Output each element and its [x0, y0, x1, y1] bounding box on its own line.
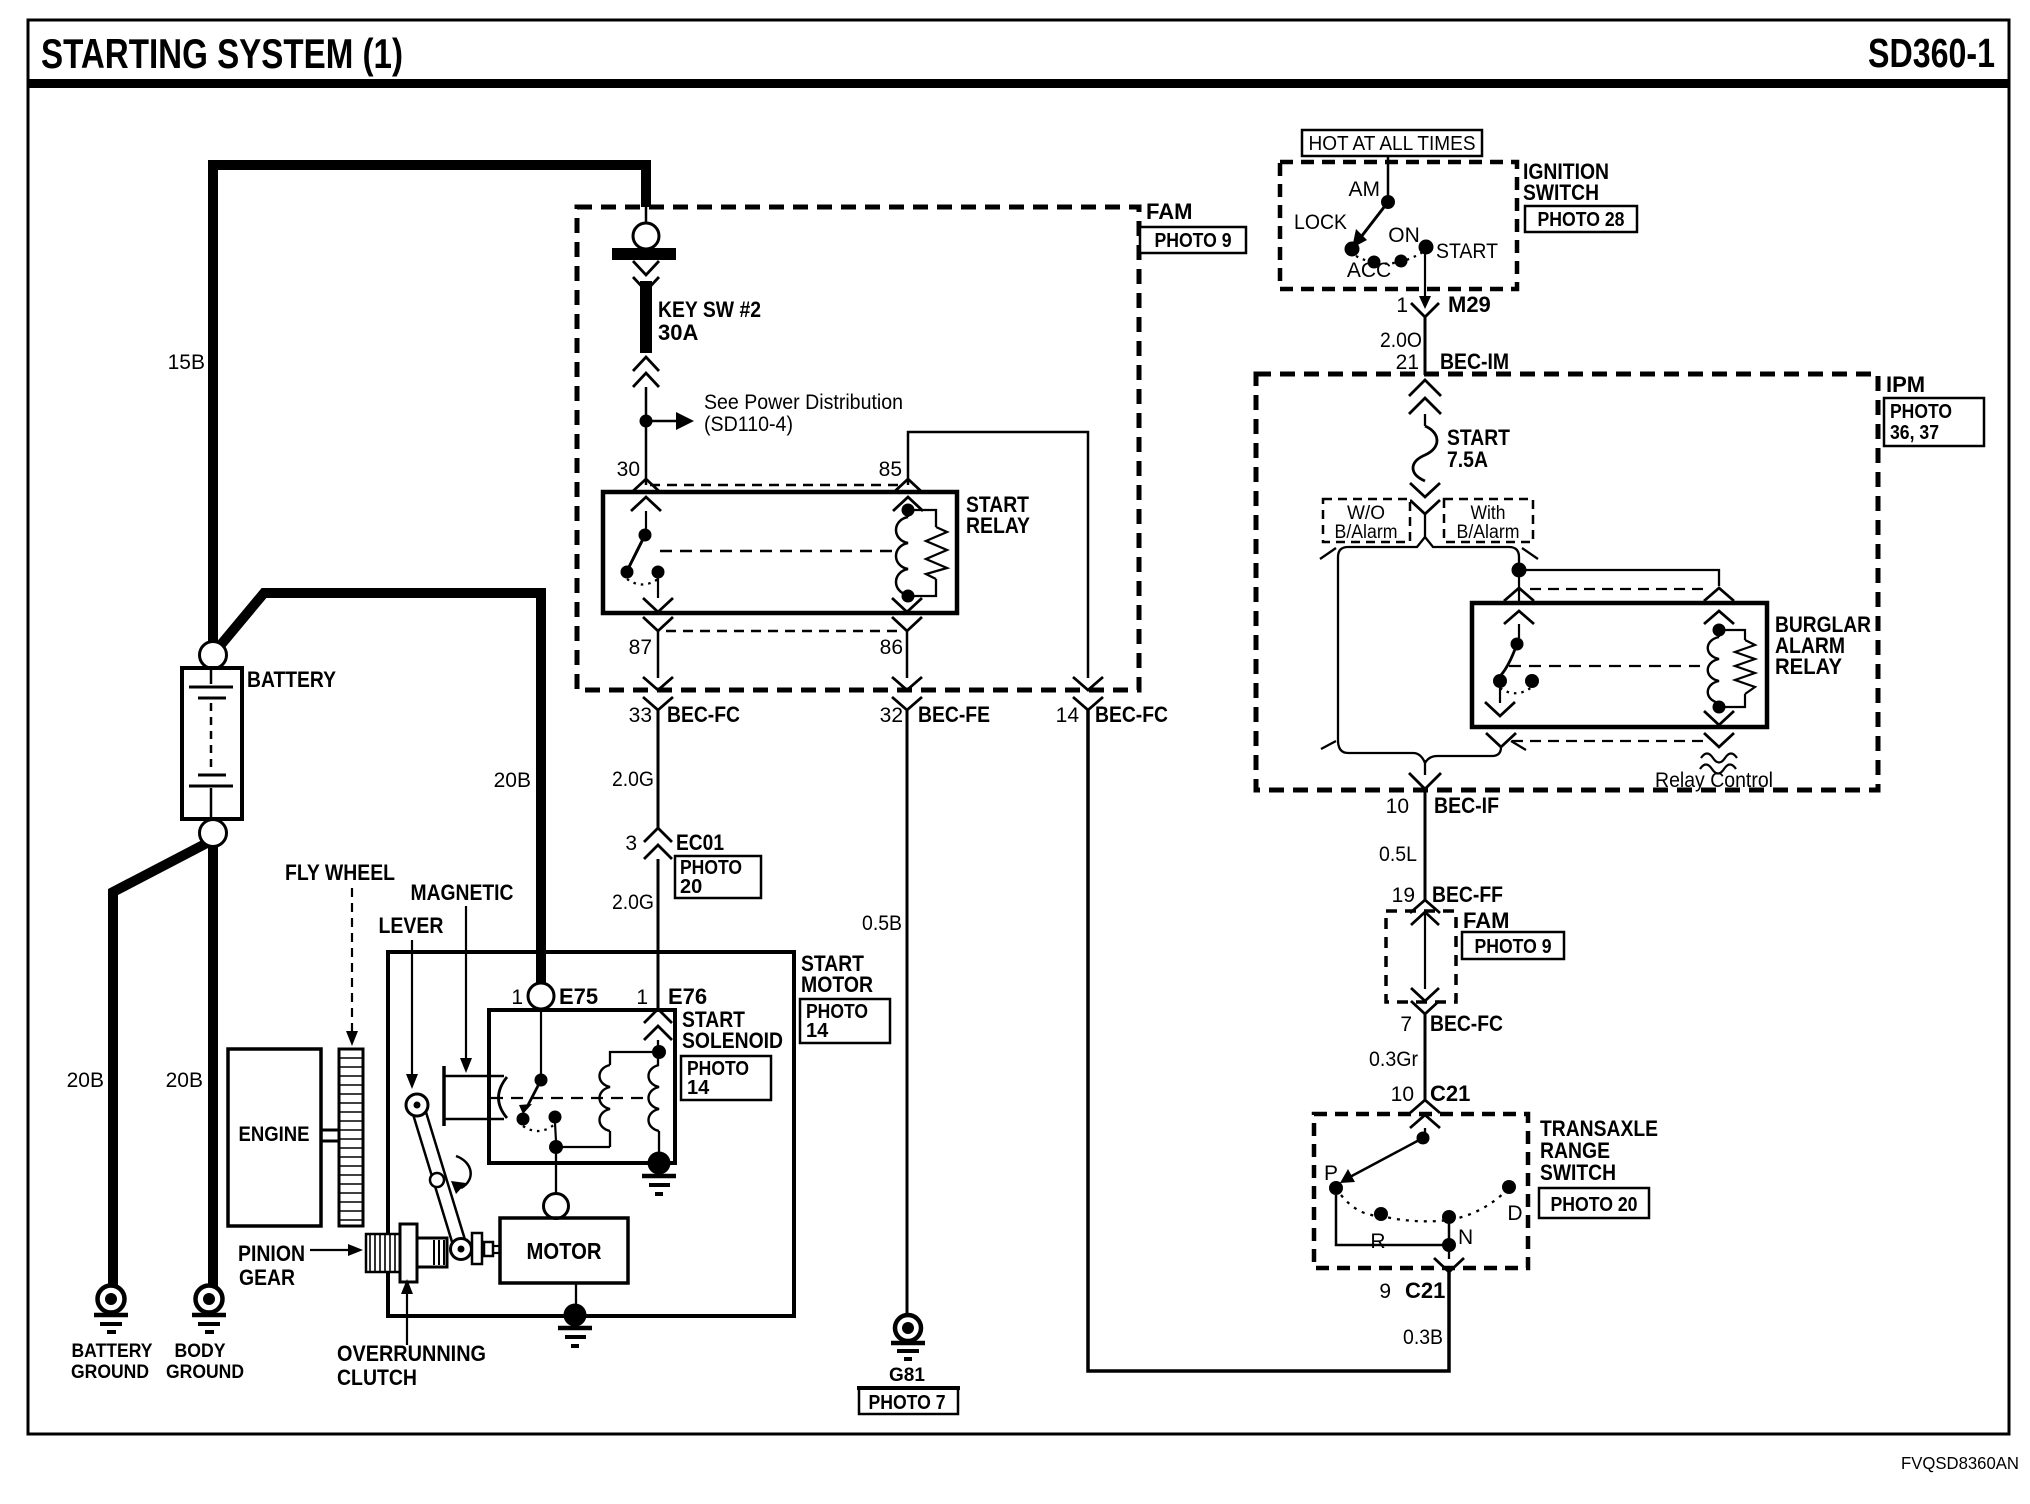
svg-text:G81: G81: [889, 1365, 925, 1386]
wire START to M29: [1424, 250, 1426, 298]
wire 0.5B BEC-FE to G81: [906, 710, 909, 1316]
photo box PHOTO 28: [1525, 206, 1637, 232]
svg-text:20: 20: [680, 876, 702, 898]
svg-text:HOT AT ALL TIMES: HOT AT ALL TIMES: [1309, 133, 1476, 155]
svg-text:B/Alarm: B/Alarm: [1457, 522, 1520, 543]
svg-text:STARTING SYSTEM (1): STARTING SYSTEM (1): [41, 30, 403, 77]
svg-text:PHOTO 9: PHOTO 9: [1155, 230, 1232, 252]
svg-text:BEC-FC: BEC-FC: [1095, 702, 1168, 727]
solenoid switch: [517, 1009, 564, 1154]
relay switch contacts: [621, 511, 665, 598]
engine-flywheel link: [321, 1130, 339, 1141]
lever linkage: [406, 1094, 472, 1260]
svg-text:0.3B: 0.3B: [1403, 1326, 1443, 1349]
connector M29: [1411, 296, 1439, 317]
svg-text:MOTOR: MOTOR: [801, 972, 873, 997]
svg-text:33: 33: [629, 704, 652, 727]
ignition switch contacts: [1294, 178, 1498, 282]
arrow see power distribution: [652, 391, 903, 436]
connector dashed line 87-86: [666, 630, 898, 633]
wire fuse to relay pin 30: [645, 387, 648, 485]
burglar relay coil with resistor: [1708, 624, 1755, 714]
merged wire to BEC-IF: [1424, 760, 1426, 775]
photo box PHOTO 9 (FAM lower): [1462, 932, 1564, 959]
svg-text:OVERRUNNING: OVERRUNNING: [337, 1341, 486, 1366]
motor ground: [558, 1283, 592, 1346]
transaxle switch contacts: [1324, 1128, 1523, 1259]
chevrons below fuse: [1410, 483, 1440, 514]
svg-text:KEY SW #2: KEY SW #2: [658, 297, 761, 322]
connector chevrons BEC-FC 14: [1073, 677, 1103, 710]
photo box PHOTO 14 (solenoid): [681, 1056, 771, 1100]
svg-text:2.0G: 2.0G: [612, 768, 654, 791]
wire junction down to relay pin: [1518, 570, 1520, 601]
svg-text:30A: 30A: [658, 320, 698, 345]
svg-text:PHOTO 28: PHOTO 28: [1538, 209, 1625, 231]
wire 20B battery ground: [113, 843, 207, 1287]
chevrons burglar relay right pin: [1704, 588, 1734, 624]
svg-text:ENGINE: ENGINE: [239, 1123, 310, 1146]
svg-text:BODY: BODY: [175, 1340, 226, 1362]
svg-text:E75: E75: [559, 984, 598, 1009]
wire 0.5L: [1424, 789, 1427, 901]
svg-text:BATTERY: BATTERY: [72, 1340, 153, 1362]
svg-text:7.5A: 7.5A: [1447, 447, 1488, 472]
junction node see-power-distribution: [640, 415, 653, 428]
svg-text:RELAY: RELAY: [966, 513, 1030, 538]
chevrons below bar: [633, 261, 659, 291]
svg-text:19: 19: [1392, 884, 1415, 907]
lever rotation arrow: [451, 1156, 471, 1194]
svg-text:AM: AM: [1349, 178, 1381, 201]
motor box MOTOR: [500, 1218, 628, 1283]
fuse START 7.5A: [1413, 426, 1437, 481]
option box With B/Alarm: [1444, 499, 1533, 543]
wire through FAM lower: [1424, 912, 1426, 989]
ignition switch box (dashed): [1280, 162, 1517, 289]
connector chevrons BEC-FF 19: [1410, 900, 1440, 925]
svg-text:CLUTCH: CLUTCH: [337, 1365, 417, 1390]
svg-text:R: R: [1370, 1230, 1385, 1253]
connector chevron C21 9: [1434, 1258, 1464, 1272]
svg-text:LEVER: LEVER: [379, 913, 444, 938]
wire fork stem: [1424, 514, 1426, 537]
svg-text:W/O: W/O: [1347, 503, 1385, 524]
svg-text:86: 86: [880, 636, 903, 659]
fly wheel gear: [339, 1049, 363, 1226]
switch box TRANSAXLE RANGE SWITCH (dashed): [1314, 1114, 1528, 1268]
svg-text:9: 9: [1379, 1280, 1391, 1303]
svg-text:See Power Distribution: See Power Distribution: [704, 391, 903, 414]
svg-text:ON: ON: [1388, 224, 1420, 247]
option box W/O B/Alarm: [1323, 499, 1410, 543]
svg-text:LOCK: LOCK: [1294, 211, 1347, 234]
wire to fuse: [1424, 414, 1426, 426]
wire EC01 to E76: [657, 859, 660, 1009]
svg-text:10: 10: [1386, 795, 1409, 818]
module box FAM lower (dashed): [1386, 911, 1456, 1002]
hot at all times box: [1302, 130, 1482, 156]
svg-text:M29: M29: [1448, 292, 1491, 317]
svg-text:FVQSD8360AN: FVQSD8360AN: [1901, 1453, 2019, 1473]
photo box PHOTO 20 (TRS): [1539, 1188, 1649, 1218]
relay exit chevrons pin 87: [643, 598, 673, 631]
chevrons below fuse: [633, 357, 659, 387]
svg-text:SOLENOID: SOLENOID: [682, 1028, 783, 1053]
svg-text:GROUND: GROUND: [71, 1361, 149, 1383]
burglar relay exit chevrons right: [1704, 711, 1734, 747]
svg-text:36, 37: 36, 37: [1890, 422, 1939, 444]
magnetic plunger symbol: [444, 1066, 507, 1126]
svg-text:MAGNETIC: MAGNETIC: [411, 880, 514, 905]
svg-text:D: D: [1507, 1202, 1522, 1225]
label MAGNETIC with arrow: [411, 880, 514, 1073]
relay box BURGLAR ALARM RELAY: [1472, 603, 1767, 727]
photo box PHOTO 9 (FAM): [1140, 227, 1246, 253]
wire 86 to BEC-FE 32: [906, 631, 909, 678]
arrow chevrons FAM lower exit: [1411, 988, 1439, 1014]
connector chevrons C21 10: [1410, 1100, 1440, 1128]
svg-text:20B: 20B: [166, 1069, 203, 1092]
svg-text:1: 1: [636, 986, 648, 1009]
svg-text:GROUND: GROUND: [166, 1361, 244, 1383]
wire AM feed: [1387, 156, 1390, 196]
burglar relay switch: [1493, 624, 1539, 703]
wire 2.0O: [1424, 317, 1427, 375]
svg-text:7: 7: [1400, 1013, 1412, 1036]
solenoid box START SOLENOID: [489, 1010, 675, 1163]
svg-text:BEC-FC: BEC-FC: [667, 702, 740, 727]
svg-text:2.0G: 2.0G: [612, 891, 654, 914]
svg-text:RELAY: RELAY: [1775, 654, 1842, 679]
svg-text:FAM: FAM: [1146, 199, 1192, 224]
connector chevron BEC-IF exit: [1409, 773, 1441, 789]
svg-text:14: 14: [687, 1077, 710, 1099]
ground battery ground G: [71, 1286, 153, 1384]
svg-text:1: 1: [511, 986, 523, 1009]
svg-text:85: 85: [879, 458, 902, 481]
svg-text:PHOTO 20: PHOTO 20: [1551, 1194, 1638, 1216]
svg-text:20B: 20B: [494, 769, 531, 792]
photo box PHOTO 7 (G81): [857, 1388, 960, 1414]
relay control squiggle: [1655, 754, 1773, 793]
svg-text:0.5B: 0.5B: [862, 912, 902, 935]
wire BEC-FC 14 to transaxle switch 9 C21: [1088, 710, 1449, 1371]
wire 85 up and over to BEC-FC 14: [908, 432, 1088, 678]
svg-text:EC01: EC01: [676, 830, 724, 855]
svg-text:1: 1: [1396, 294, 1408, 317]
svg-text:GEAR: GEAR: [239, 1265, 295, 1290]
svg-text:3: 3: [625, 832, 637, 855]
solenoid pull-in coil: [556, 1052, 652, 1147]
wire to burglar relay coil: [1519, 570, 1719, 586]
motor shaft link: [472, 1233, 500, 1264]
fuse KEY SW #2 30A: [640, 281, 652, 353]
overrunning clutch body: [400, 1224, 447, 1282]
svg-text:87: 87: [629, 636, 652, 659]
svg-text:2.0O: 2.0O: [1380, 329, 1422, 352]
connector chevrons BEC-FE 32: [892, 677, 922, 710]
fork to W/O branch: [1338, 537, 1425, 763]
start motor outer box START MOTOR: [388, 952, 794, 1316]
svg-text:20B: 20B: [67, 1069, 104, 1092]
svg-text:BEC-FC: BEC-FC: [1430, 1011, 1503, 1036]
wire 87 to BEC-FC 33: [657, 631, 660, 678]
label OVERRUNNING CLUTCH with arrow: [337, 1279, 486, 1390]
svg-text:PINION: PINION: [238, 1241, 305, 1266]
svg-text:PHOTO: PHOTO: [1890, 401, 1952, 423]
battery BATTERY: [182, 642, 336, 847]
chevrons burglar relay left pin: [1504, 588, 1534, 624]
photo box PHOTO 20 (EC01): [675, 856, 761, 898]
connector chevrons BEC-IM entry: [1409, 380, 1441, 414]
connector circle E75: [528, 983, 554, 1009]
junction node burglar branch: [1512, 563, 1527, 578]
relay coil with resistor: [896, 504, 947, 603]
svg-text:0.5L: 0.5L: [1379, 843, 1417, 866]
label LEVER with arrow: [379, 913, 444, 1089]
svg-text:21: 21: [1396, 351, 1419, 374]
solenoid hold-in coil: [649, 1040, 667, 1155]
photo box PHOTO 14 (start motor): [800, 999, 890, 1043]
solenoid internal dashed line: [491, 1097, 648, 1099]
wire 2.0G down to EC01: [657, 710, 660, 828]
svg-text:PHOTO 7: PHOTO 7: [869, 1392, 946, 1414]
svg-text:SWITCH: SWITCH: [1523, 180, 1599, 205]
solenoid ground: [642, 1152, 676, 1195]
svg-text:14: 14: [806, 1020, 829, 1042]
svg-text:B/Alarm: B/Alarm: [1335, 522, 1398, 543]
wire 0.3Gr: [1424, 1014, 1427, 1101]
connector chevrons pin 85: [893, 479, 923, 511]
svg-text:E76: E76: [668, 984, 707, 1009]
svg-text:P: P: [1324, 1162, 1338, 1185]
svg-text:BATTERY: BATTERY: [247, 667, 336, 692]
label FLY WHEEL with arrow: [285, 860, 395, 1046]
svg-text:BEC-IM: BEC-IM: [1440, 349, 1509, 374]
relay box START RELAY: [603, 492, 957, 613]
connector circle at fuse KEY SW: [633, 207, 659, 249]
svg-text:START: START: [1436, 240, 1498, 263]
svg-text:N: N: [1458, 1226, 1473, 1249]
branch tick marks: [1320, 548, 1538, 750]
svg-text:MOTOR: MOTOR: [527, 1238, 602, 1264]
engine box ENGINE: [228, 1049, 321, 1226]
wire relay left pin to merge: [1425, 747, 1501, 763]
connector chevrons EC01: [644, 828, 672, 859]
wire 20B battery to start motor E75: [219, 593, 541, 984]
motor connector circle: [544, 1154, 569, 1219]
svg-text:C21: C21: [1405, 1278, 1445, 1303]
svg-text:10: 10: [1391, 1083, 1414, 1106]
svg-text:PHOTO 9: PHOTO 9: [1475, 936, 1552, 958]
fork to With branch: [1425, 537, 1519, 563]
svg-text:BEC-FE: BEC-FE: [918, 702, 990, 727]
svg-text:Relay Control: Relay Control: [1655, 769, 1773, 792]
svg-text:30: 30: [617, 458, 640, 481]
relay exit chevrons pin 86: [892, 598, 922, 631]
burglar relay internal dashed line: [1509, 665, 1700, 667]
svg-text:BEC-FF: BEC-FF: [1432, 882, 1503, 907]
label PINION GEAR with arrow: [238, 1241, 363, 1290]
svg-text:With: With: [1471, 503, 1506, 524]
svg-text:15B: 15B: [168, 351, 205, 374]
module box FAM (dashed): [577, 207, 1139, 690]
svg-text:(SD110-4): (SD110-4): [704, 413, 793, 436]
header rule: [28, 79, 2009, 88]
connector chevrons BEC-FC 33: [643, 677, 673, 710]
connector chevrons pin 30: [631, 479, 661, 511]
ground body ground G: [166, 1286, 244, 1384]
svg-text:14: 14: [1056, 704, 1080, 727]
dashed line to coil pin: [1530, 588, 1708, 590]
svg-text:IPM: IPM: [1886, 372, 1925, 397]
connector dashed line 30-85: [650, 484, 904, 487]
svg-text:32: 32: [880, 704, 903, 727]
svg-text:0.3Gr: 0.3Gr: [1369, 1048, 1418, 1071]
wire 15B battery to key switch fuse: [213, 165, 646, 650]
dashed line bottom pins: [1512, 740, 1708, 742]
svg-text:SD360-1: SD360-1: [1868, 30, 1995, 76]
svg-text:FLY WHEEL: FLY WHEEL: [285, 860, 395, 885]
svg-text:ACC: ACC: [1347, 259, 1391, 282]
svg-text:SWITCH: SWITCH: [1540, 1160, 1616, 1185]
svg-text:BEC-IF: BEC-IF: [1434, 793, 1499, 818]
module box IPM (dashed): [1256, 374, 1878, 790]
burglar relay exit chevrons left: [1485, 702, 1516, 747]
photo box PHOTO 36, 37: [1884, 398, 1984, 446]
wire 20B body ground: [208, 845, 218, 1287]
pinion gear (hatched): [366, 1234, 400, 1272]
ground G81: [889, 1315, 925, 1386]
connector chevrons E76: [644, 1009, 672, 1040]
relay internal dashed line: [660, 550, 898, 553]
fusible link bar: [612, 248, 676, 260]
svg-text:FAM: FAM: [1463, 908, 1509, 933]
svg-text:C21: C21: [1430, 1081, 1470, 1106]
